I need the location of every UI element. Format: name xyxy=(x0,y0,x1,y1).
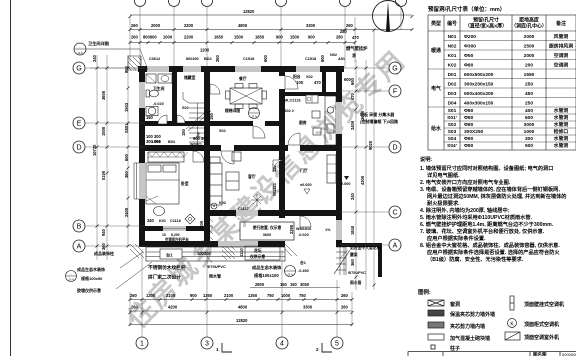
svg-text:Φ80: Φ80 xyxy=(464,122,474,128)
K02 circle xyxy=(211,203,217,209)
svg-text:卫生间详图: 卫生间详图 xyxy=(88,40,109,47)
svg-text:2400: 2400 xyxy=(124,207,129,217)
svg-text:1500: 1500 xyxy=(290,35,300,40)
svg-text:450: 450 xyxy=(525,91,533,97)
svg-text:J1-4: J1-4 xyxy=(68,278,74,282)
svg-text:3. 电缆、设备箱预留穿越墙体的, 应在墙体背后一侧钉钢板网: 3. 电缆、设备箱预留穿越墙体的, 应在墙体背后一侧钉钢板网, xyxy=(420,185,560,193)
svg-text:2500: 2500 xyxy=(524,44,535,50)
svg-text:6. 燃气壁挂炉护理距地1.4m, 距离燃气台边不少于300: 6. 燃气壁挂炉护理距地1.4m, 距离燃气台边不少于300mm. xyxy=(420,220,554,228)
svg-text:1500: 1500 xyxy=(101,126,106,136)
svg-text:检修口: 检修口 xyxy=(554,128,569,135)
svg-text:260: 260 xyxy=(131,23,139,28)
svg-text:加气混凝土砌块墙: 加气混凝土砌块墙 xyxy=(449,335,490,342)
svg-text:A51: A51 xyxy=(338,57,345,61)
svg-text:储藏室: 储藏室 xyxy=(184,75,196,80)
svg-text:水管洞: 水管洞 xyxy=(553,114,569,121)
balcony door arc xyxy=(279,76,285,89)
svg-text:G: G xyxy=(76,66,81,73)
svg-text:便行放置, 仅示意: 便行放置, 仅示意 xyxy=(253,225,282,230)
bottom extension lines xyxy=(130,250,352,337)
svg-text:空调洞: 空调洞 xyxy=(554,52,569,59)
window right wall kitchen xyxy=(336,102,342,134)
svg-text:J1-8: J1-8 xyxy=(77,51,83,55)
right detail bubble xyxy=(285,266,296,277)
svg-text:C1118: C1118 xyxy=(170,219,181,223)
svg-text:900: 900 xyxy=(190,293,198,298)
svg-text:500x400x200: 500x400x200 xyxy=(464,91,494,97)
wall axis3 vertical xyxy=(204,66,210,247)
svg-text:0000000: 0000000 xyxy=(562,352,576,356)
svg-text:1. 墙体预留尺寸应同时对照结构图、设备图纸; 电气的洞口: 1. 墙体预留尺寸应同时对照结构图、设备图纸; 电气的洞口 xyxy=(420,164,553,172)
svg-text:L001: L001 xyxy=(152,140,161,144)
svg-text:楼梯详图: 楼梯详图 xyxy=(225,108,240,113)
svg-text:3040: 3040 xyxy=(360,110,365,120)
svg-text:1500: 1500 xyxy=(234,35,244,40)
svg-text:150: 150 xyxy=(290,282,298,287)
top dimension line 1: 12820 xyxy=(130,14,412,16)
svg-text:250: 250 xyxy=(525,82,533,88)
svg-text:D02: D02 xyxy=(448,82,457,88)
wall left outer xyxy=(139,66,145,247)
svg-text:(控制墙偏框 下)3回路: (控制墙偏框 下)3回路 xyxy=(360,118,398,124)
svg-text:3050: 3050 xyxy=(300,282,310,287)
entry door arcs at C wall xyxy=(300,216,311,227)
svg-text:花坛: 花坛 xyxy=(254,248,262,253)
svg-text:260: 260 xyxy=(215,54,220,62)
legend window symbol xyxy=(428,300,444,306)
svg-text:2100: 2100 xyxy=(166,293,176,298)
storage-dining door arc xyxy=(210,84,220,94)
svg-text:1000: 1000 xyxy=(163,35,173,40)
living door arc in wall4 xyxy=(273,160,285,172)
svg-text:1: 1 xyxy=(140,341,144,348)
window in C wall xyxy=(236,210,258,216)
bath counter xyxy=(158,74,172,83)
top grid bubbles xyxy=(135,0,407,7)
storage door arc xyxy=(177,115,185,123)
svg-text:3600: 3600 xyxy=(263,233,271,237)
svg-text:1503: 1503 xyxy=(124,102,129,112)
svg-text:应用户根据实际条件选择是否设置. 选择的产品应符合防火: 应用户根据实际条件选择是否设置. 选择的产品应符合防火 xyxy=(427,248,560,256)
svg-text:260: 260 xyxy=(341,305,349,310)
svg-text:2000: 2000 xyxy=(151,23,161,28)
svg-text:WM1816: WM1816 xyxy=(296,227,311,231)
stair detail bubble xyxy=(249,108,260,119)
svg-text:260: 260 xyxy=(341,293,349,298)
svg-text:12820: 12820 xyxy=(243,9,255,14)
bottom-left product labels xyxy=(77,250,114,293)
svg-text:（直径/宽X高X厚）: （直径/宽X高X厚） xyxy=(465,23,507,30)
top dimension line 2 xyxy=(130,29,412,31)
right porch steps xyxy=(334,247,350,275)
svg-text:-0.020: -0.020 xyxy=(298,233,309,237)
svg-text:470: 470 xyxy=(350,92,355,100)
living door at D wall xyxy=(221,145,234,151)
svg-text:4300: 4300 xyxy=(360,175,365,185)
svg-text:B: B xyxy=(77,224,82,231)
notes xyxy=(420,155,567,263)
legend wall AC xyxy=(510,296,514,310)
svg-text:Φ80: Φ80 xyxy=(464,63,474,69)
svg-text:Φ75UPVC: Φ75UPVC xyxy=(207,264,226,269)
svg-text:940: 940 xyxy=(101,228,106,236)
bottom dimension row 2 xyxy=(130,310,352,312)
left grid bubbles xyxy=(73,62,85,252)
right axis lines xyxy=(340,68,389,245)
bottom dimension row 1 xyxy=(130,299,352,301)
svg-text:3000: 3000 xyxy=(524,122,535,128)
porch hatch left xyxy=(205,218,213,242)
svg-text:Φ300: Φ300 xyxy=(464,44,476,50)
vanity diamond xyxy=(185,214,195,224)
svg-text:300x200x150: 300x200x150 xyxy=(464,82,494,88)
svg-text:600: 600 xyxy=(320,54,325,62)
dining table xyxy=(226,84,267,109)
svg-text:7. 玻璃、花坛、空调室外机平台和便行放处, 仅供示意.: 7. 玻璃、花坛、空调室外机平台和便行放处, 仅供示意. xyxy=(420,227,545,235)
svg-text:1840: 1840 xyxy=(350,225,355,235)
svg-text:3: 3 xyxy=(205,341,209,348)
svg-text:Φ80: Φ80 xyxy=(464,136,474,142)
svg-text:应用户根据实际条件设置.: 应用户根据实际条件设置. xyxy=(427,234,486,242)
svg-text:阳台: 阳台 xyxy=(293,74,301,79)
legend exterior wall xyxy=(428,310,444,316)
svg-text:100300: 100300 xyxy=(197,251,211,256)
stool xyxy=(154,207,165,216)
svg-text:C1518: C1518 xyxy=(305,57,316,61)
svg-text:餐厅: 餐厅 xyxy=(238,76,247,81)
watermark xyxy=(121,44,411,334)
bedroom bay window lines xyxy=(134,163,139,199)
svg-text:500: 500 xyxy=(525,143,533,149)
svg-text:280: 280 xyxy=(340,29,348,34)
svg-text:J1-9: J1-9 xyxy=(251,115,257,119)
svg-text:4800: 4800 xyxy=(238,305,248,310)
left axis lines xyxy=(85,68,148,246)
kitchen door arc xyxy=(288,145,300,151)
svg-text:仅供示意: 仅供示意 xyxy=(249,254,265,259)
svg-text:S04': S04' xyxy=(447,143,457,149)
svg-text:夹芯剪力墙内墙: 夹芯剪力墙内墙 xyxy=(450,323,485,330)
svg-text:Φ50: Φ50 xyxy=(464,53,474,59)
svg-text:耐火极限要求.: 耐火极限要求. xyxy=(427,199,460,207)
svg-text:8. 铝合金中大窗花格、成品装饰柱、成品装饰容器, 仅供示意: 8. 铝合金中大窗花格、成品装饰柱、成品装饰容器, 仅供示意. xyxy=(420,241,560,249)
svg-text:胶墙仅供示意: 胶墙仅供示意 xyxy=(77,287,101,293)
svg-text:12820: 12820 xyxy=(236,318,248,323)
north arrow compass xyxy=(373,1,404,32)
svg-text:1110: 1110 xyxy=(239,248,244,257)
svg-text:340: 340 xyxy=(147,218,155,223)
svg-text:详见电气图纸.: 详见电气图纸. xyxy=(427,171,460,179)
svg-text:5. 雨水管除注明外均采用Φ110UPVC材质雨水管.: 5. 雨水管除注明外均采用Φ110UPVC材质雨水管. xyxy=(420,213,533,221)
svg-text:0.000: 0.000 xyxy=(341,182,351,186)
svg-text:空调室外机平台: 空调室外机平台 xyxy=(165,237,189,242)
sheet border xyxy=(10,0,12,356)
svg-text:-: - xyxy=(289,267,290,271)
svg-text:600: 600 xyxy=(263,54,268,62)
svg-text:1200: 1200 xyxy=(146,293,156,298)
svg-text:拼厂家二次设计: 拼厂家二次设计 xyxy=(148,274,181,281)
svg-text:260: 260 xyxy=(131,305,139,310)
right dimension column xyxy=(356,30,374,290)
legend block wall xyxy=(428,334,444,340)
entry cabinet xyxy=(327,155,336,183)
svg-text:A: A xyxy=(77,244,82,251)
window tags top xyxy=(149,53,345,61)
svg-text:1200: 1200 xyxy=(200,48,210,53)
svg-text:1650: 1650 xyxy=(214,35,224,40)
svg-text:1000: 1000 xyxy=(281,293,291,298)
svg-text:2. 电气安装开口方向应对照电气专业图.: 2. 电气安装开口方向应对照电气专业图. xyxy=(420,178,511,186)
svg-text:150: 150 xyxy=(181,128,186,136)
svg-text:预留/孔尺寸: 预留/孔尺寸 xyxy=(473,17,499,24)
svg-text:S02: S02 xyxy=(219,129,226,133)
svg-text:2390: 2390 xyxy=(289,224,294,234)
svg-text:洞: 洞 xyxy=(352,53,356,58)
svg-text:S02 2: S02 2 xyxy=(284,109,294,113)
svg-text:网片最边过洞边50MM, 抹灰层做防火处理, 并达到新在墙体: 网片最边过洞边50MM, 抹灰层做防火处理, 并达到新在墙体的 xyxy=(427,192,567,200)
svg-text:类型: 类型 xyxy=(431,20,441,27)
svg-text:300X250: 300X250 xyxy=(464,129,484,135)
railing label xyxy=(148,264,186,281)
svg-text:台1: 台1 xyxy=(300,260,306,265)
svg-text:Φ80: Φ80 xyxy=(464,143,474,149)
svg-text:备注: 备注 xyxy=(555,20,566,27)
corner hatch columns xyxy=(130,244,297,258)
svg-text:S01': S01' xyxy=(447,115,457,121)
svg-text:470: 470 xyxy=(352,35,360,40)
svg-text:E: E xyxy=(77,121,82,128)
wall E horizontal right (kitchen top) xyxy=(279,92,342,96)
svg-text:1550: 1550 xyxy=(524,72,535,78)
svg-text:空调洞: 空调洞 xyxy=(554,62,569,69)
legend cabinet AC xyxy=(508,319,517,328)
svg-text:600: 600 xyxy=(124,153,129,161)
svg-text:260: 260 xyxy=(130,293,138,298)
svg-text:C1518: C1518 xyxy=(243,57,254,61)
section marker 1 bottom xyxy=(222,343,232,352)
svg-text:900 300: 900 300 xyxy=(193,136,209,141)
svg-text:水管洞: 水管洞 xyxy=(553,121,569,128)
kitchen counter xyxy=(312,96,336,145)
svg-text:燃气壁挂炉: 燃气壁挂炉 xyxy=(346,45,368,52)
wall axis2 vertical xyxy=(172,66,177,124)
svg-text:±0.000: ±0.000 xyxy=(300,183,312,187)
dimension tick marks xyxy=(96,15,414,326)
balcony divider xyxy=(322,66,326,96)
svg-text:150: 150 xyxy=(280,282,288,287)
svg-text:C0612: C0612 xyxy=(149,57,160,61)
svg-text:3600: 3600 xyxy=(101,90,106,100)
wall bottom outer A xyxy=(139,241,285,247)
svg-text:水管洞: 水管洞 xyxy=(553,142,569,149)
svg-text:470: 470 xyxy=(314,80,322,85)
svg-text:Φ75UPVC: Φ75UPVC xyxy=(348,271,366,275)
svg-text:D01: D01 xyxy=(448,72,457,78)
svg-text:260: 260 xyxy=(131,35,139,40)
right mid product labels xyxy=(252,264,282,279)
svg-text:厨房排风洞: 厨房排风洞 xyxy=(549,43,573,50)
svg-text:260: 260 xyxy=(346,23,354,28)
svg-text:N02: N02 xyxy=(448,44,457,50)
svg-text:电气: 电气 xyxy=(431,85,441,92)
svg-text:800600: 800600 xyxy=(143,35,157,40)
svg-text:水管洞: 水管洞 xyxy=(553,107,569,114)
porch area: AC platform xyxy=(240,222,294,240)
svg-text:图名图: 图名图 xyxy=(533,351,547,356)
svg-text:Φ80: Φ80 xyxy=(464,115,474,121)
stairs xyxy=(183,92,206,145)
svg-text:200: 200 xyxy=(525,63,533,69)
svg-text:S02: S02 xyxy=(448,122,457,128)
svg-text:4800: 4800 xyxy=(238,23,248,28)
section marker 2 bottom xyxy=(322,343,332,352)
svg-text:300: 300 xyxy=(525,136,533,142)
svg-text:卧室: 卧室 xyxy=(181,181,189,186)
svg-text:A: A xyxy=(393,243,398,250)
svg-text:Φ200: Φ200 xyxy=(464,34,476,40)
svg-text:柱子: 柱子 xyxy=(450,345,460,352)
svg-text:厨房: 厨房 xyxy=(299,120,307,125)
svg-text:S01: S01 xyxy=(448,108,457,114)
svg-text:-: - xyxy=(70,272,71,276)
small table xyxy=(232,152,241,161)
svg-text:（洞底/孔中心）: （洞底/孔中心） xyxy=(511,23,547,30)
bottom grid bubbles xyxy=(136,337,343,349)
svg-text:顶面柜式空调机: 顶面柜式空调机 xyxy=(524,321,559,328)
svg-text:台1: 台1 xyxy=(166,252,173,259)
bath washer xyxy=(146,74,156,83)
svg-text:雨水管: 雨水管 xyxy=(209,273,221,279)
svg-text:不锈钢仿木纹栏杆: 不锈钢仿木纹栏杆 xyxy=(148,264,186,271)
svg-text:腰梁: 腰梁 xyxy=(349,252,358,257)
svg-text:距地高度: 距地高度 xyxy=(519,17,539,24)
wall right outer xyxy=(336,66,342,243)
svg-text:J1-6: J1-6 xyxy=(287,273,293,277)
wall D horizontal xyxy=(139,145,342,151)
svg-text:2000: 2000 xyxy=(524,34,535,40)
svg-text:4. 除注明外, 内墙均为200厚, 轴线居中;: 4. 除注明外, 内墙均为200厚, 轴线居中; xyxy=(420,206,510,214)
svg-text:K02: K02 xyxy=(219,201,226,205)
step platform 台1 xyxy=(146,247,285,261)
svg-text:客厅: 客厅 xyxy=(247,174,256,179)
svg-text:编号: 编号 xyxy=(447,20,457,27)
svg-text:2100: 2100 xyxy=(224,293,234,298)
svg-text:图例:: 图例: xyxy=(418,288,431,296)
svg-text:规格100x100: 规格100x100 xyxy=(254,272,279,279)
plant symbol xyxy=(251,194,263,206)
toilet xyxy=(146,90,159,97)
svg-text:240: 240 xyxy=(350,192,355,200)
svg-text:D03: D03 xyxy=(448,91,457,97)
svg-text:360: 360 xyxy=(101,242,106,250)
svg-text:2200: 2200 xyxy=(184,23,194,28)
svg-text:600: 600 xyxy=(350,77,355,85)
svg-text:N01: N01 xyxy=(448,34,457,40)
svg-text:400x300x150: 400x300x150 xyxy=(464,101,494,107)
bottom-left detail bubble xyxy=(66,271,77,282)
flower bed box xyxy=(245,246,280,260)
svg-text:-0.450: -0.450 xyxy=(298,269,309,273)
legend interior wall xyxy=(428,322,444,328)
svg-text:360: 360 xyxy=(350,258,355,266)
roof hatch top-left corner xyxy=(128,56,141,70)
svg-text:D: D xyxy=(392,145,397,152)
wardrobe xyxy=(148,152,184,162)
right grid bubbles xyxy=(389,62,401,251)
svg-text:Φ80: Φ80 xyxy=(464,108,474,114)
svg-text:600x500x200: 600x500x200 xyxy=(464,72,494,78)
svg-text:4200: 4200 xyxy=(168,305,178,310)
svg-text:1650: 1650 xyxy=(255,35,265,40)
svg-text:1350: 1350 xyxy=(248,293,258,298)
svg-text:750: 750 xyxy=(267,293,275,298)
top dimension line 3 xyxy=(130,42,355,44)
svg-text:成品生态木装饰: 成品生态木装饰 xyxy=(77,266,105,272)
svg-text:360: 360 xyxy=(124,170,129,178)
svg-text:地板 采暖 分集水器: 地板 采暖 分集水器 xyxy=(360,111,395,117)
svg-text:250: 250 xyxy=(525,101,533,107)
svg-text:G: G xyxy=(392,66,397,73)
svg-text:D04: D04 xyxy=(448,101,457,107)
svg-text:预留洞/孔尺寸表（单位：mm）: 预留洞/孔尺寸表（单位：mm） xyxy=(428,5,505,13)
top extension lines xyxy=(130,6,401,68)
wall C horizontal xyxy=(204,210,342,216)
bottom dimension row 3 xyxy=(130,324,352,326)
svg-text:（B1级）防腐、安全性、无污染性等要求.: （B1级）防腐、安全性、无污染性等要求. xyxy=(427,255,524,263)
svg-text:W0921: W0921 xyxy=(190,143,202,147)
svg-text:1000: 1000 xyxy=(524,129,535,135)
svg-text:成品生态木装饰: 成品生态木装饰 xyxy=(252,264,282,271)
wall B bedroom bottom xyxy=(139,226,210,231)
corridor door arc dining xyxy=(253,126,265,138)
svg-text:2800: 2800 xyxy=(255,282,265,287)
wall axis4 vertical xyxy=(279,66,285,218)
svg-text:5100: 5100 xyxy=(101,170,106,180)
bed xyxy=(146,163,179,204)
svg-text:规格100x50: 规格100x50 xyxy=(80,275,103,281)
svg-text:240: 240 xyxy=(92,54,97,62)
svg-text:S04: S04 xyxy=(448,136,457,142)
balcony washer at E wall xyxy=(306,95,318,103)
svg-text:400: 400 xyxy=(525,108,533,114)
svg-text:600: 600 xyxy=(525,115,533,121)
svg-text:K02: K02 xyxy=(448,63,457,69)
svg-text:150: 150 xyxy=(146,115,154,120)
svg-text:15: 15 xyxy=(162,233,166,237)
svg-text:X02: X02 xyxy=(306,75,313,79)
band hatch xyxy=(222,246,235,260)
svg-text:2000: 2000 xyxy=(524,53,535,59)
svg-text:750: 750 xyxy=(299,293,307,298)
svg-text:MLC2123: MLC2123 xyxy=(284,99,301,103)
svg-text:风管洞: 风管洞 xyxy=(554,33,569,40)
svg-text:顶面空调室外机: 顶面空调室外机 xyxy=(524,334,559,341)
bath door arc xyxy=(158,115,167,124)
svg-text:S03: S03 xyxy=(448,129,457,135)
svg-text:C: C xyxy=(392,210,397,217)
wash basin xyxy=(146,107,158,116)
svg-text:800300: 800300 xyxy=(186,57,199,61)
svg-text:保温夹芯剪力墙外墙: 保温夹芯剪力墙外墙 xyxy=(449,311,495,318)
svg-text:D: D xyxy=(76,145,81,152)
svg-text:5: 5 xyxy=(335,341,339,348)
bath detail bubble top-left xyxy=(74,43,86,55)
svg-text:雨水管: 雨水管 xyxy=(350,280,362,285)
svg-text:-: - xyxy=(253,109,254,113)
svg-text:8,200: 8,200 xyxy=(171,233,180,237)
title block strip bottom right xyxy=(408,352,576,356)
svg-text:N02: N02 xyxy=(330,53,337,57)
